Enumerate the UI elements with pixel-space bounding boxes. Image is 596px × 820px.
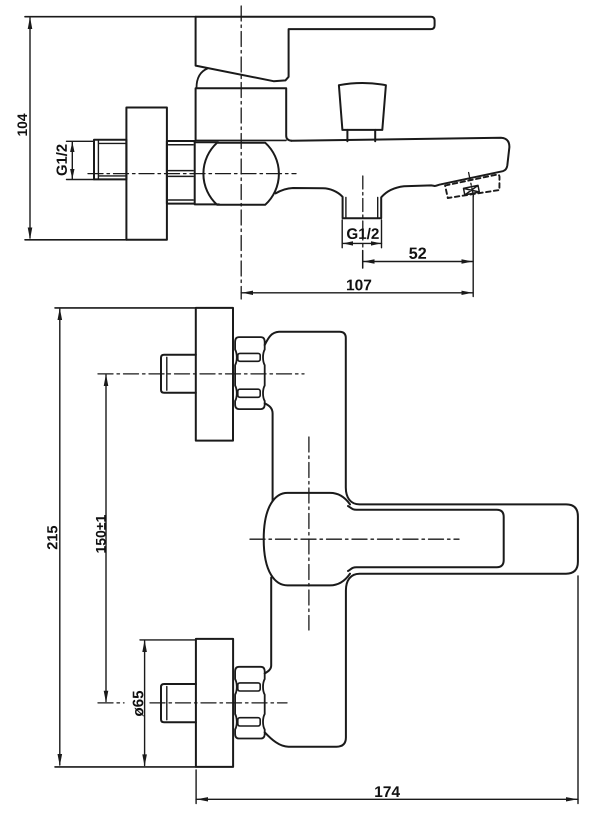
cartridge cap fillet arc xyxy=(197,69,208,88)
bottom plate extension line xyxy=(55,766,196,768)
dim 174 arrows xyxy=(197,797,578,801)
dim G1/2 bottom ext lines xyxy=(342,220,381,248)
centerline top inlet xyxy=(98,373,304,375)
dim 104 arrow down xyxy=(28,228,33,240)
top nut slot lower xyxy=(238,389,260,397)
hex nut (side view) xyxy=(167,141,195,204)
dim ø65 line xyxy=(144,641,146,766)
dim ø65 text xyxy=(133,691,144,717)
body outline with lever bar xyxy=(265,332,578,747)
aerator (angled, dashed) xyxy=(445,175,499,198)
dim G1/2 bottom arrows xyxy=(343,241,382,245)
dim G1/2 left line xyxy=(71,142,73,179)
dim 150±1 arrows xyxy=(104,374,109,703)
centerline body vertical xyxy=(308,437,310,630)
dim G1/2 bottom line xyxy=(342,242,381,244)
outlet vertical centerline xyxy=(362,176,364,247)
bottom nipple thread line xyxy=(166,687,168,720)
lever boss xyxy=(264,493,350,586)
centerline bottom inlet xyxy=(98,702,287,704)
dim 174 left extension xyxy=(195,770,197,804)
top plate extension line xyxy=(55,307,196,309)
top nipple thread line xyxy=(166,357,168,390)
inlet nipple G1/2 (side view) xyxy=(94,140,126,180)
bottom hex nut (front) xyxy=(235,667,265,739)
knob neck xyxy=(347,130,375,141)
valve ball xyxy=(203,143,279,205)
dim 104 top extension line xyxy=(25,16,196,18)
dim 215 text xyxy=(47,526,57,549)
centerline lever xyxy=(250,538,459,540)
bottom nut slot upper xyxy=(238,683,260,691)
aerator centerline xyxy=(469,173,474,197)
G1/2 bottom text xyxy=(347,228,379,239)
aerator square with X xyxy=(464,185,480,195)
dim 107 text xyxy=(347,279,371,290)
dim ø65 arrows xyxy=(142,640,147,766)
dim G1/2 left arrows xyxy=(70,142,74,180)
body left edge upper segment xyxy=(265,403,273,501)
bottom nut slot lower xyxy=(238,718,260,726)
dim 107 line xyxy=(241,292,473,294)
dim 104 line xyxy=(29,18,31,238)
wall flange (side view) xyxy=(126,108,166,240)
handle lever (grip + bar) xyxy=(196,17,435,82)
dim 104 arrow up xyxy=(28,17,33,29)
top hex nut (front) xyxy=(235,337,265,409)
body deck and spout outline xyxy=(276,138,510,219)
hex nut facet lines xyxy=(169,145,194,200)
dim 174 text xyxy=(375,786,400,797)
dim 52 text xyxy=(409,247,426,258)
body left edge lower segment xyxy=(265,578,272,674)
lever inner outline xyxy=(348,506,504,571)
dim 174 right extension xyxy=(577,576,579,804)
dim 150±1 text xyxy=(96,515,106,553)
dim 52 arrows xyxy=(363,259,472,263)
G1/2 left text xyxy=(56,145,67,176)
dim 107 arrows xyxy=(242,291,473,295)
dim 52 left tick xyxy=(362,251,364,269)
top nut slot upper xyxy=(238,353,260,361)
inlet nipple thread lines xyxy=(98,140,126,180)
bottom wall plate (front) xyxy=(196,639,233,767)
main vertical centerline top view xyxy=(240,6,242,299)
dim 215 line xyxy=(59,309,61,765)
dim 52 line xyxy=(363,261,473,263)
dim 174 line xyxy=(196,798,578,800)
top inlet nipple xyxy=(161,355,196,393)
dim 150±1 line xyxy=(105,375,107,702)
ø65 top extension line xyxy=(140,639,196,641)
dim G1/2 left ext lines xyxy=(67,141,95,179)
dim 104 bottom extension line xyxy=(25,239,127,241)
dim 104 text xyxy=(17,114,27,136)
main horizontal centerline top view xyxy=(88,173,296,175)
aerator extension line xyxy=(472,196,474,297)
outlet nipple thread lines xyxy=(346,197,378,218)
dim 215 arrows xyxy=(58,308,63,766)
top wall plate (front) xyxy=(196,308,233,441)
diverter knob xyxy=(339,83,386,130)
bottom inlet nipple xyxy=(161,684,196,722)
collar lines between nut and ball xyxy=(195,142,219,204)
cartridge cap xyxy=(196,88,292,141)
deck line under cap xyxy=(196,139,286,141)
